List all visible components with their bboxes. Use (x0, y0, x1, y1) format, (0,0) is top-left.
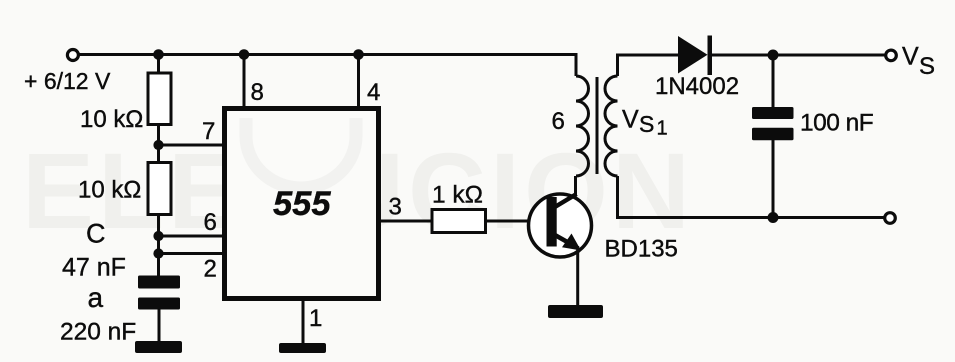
svg-text:47 nF: 47 nF (62, 254, 126, 282)
diode D1 1N4002 (678, 36, 708, 74)
svg-text:3: 3 (389, 194, 402, 221)
svg-text:a: a (88, 282, 104, 313)
transistor Q1 BD135 (529, 194, 592, 257)
ground C1 (135, 341, 182, 353)
svg-text:555: 555 (273, 185, 331, 223)
IC U1 555 timer box (225, 109, 379, 299)
secondary winding (605, 76, 618, 176)
wire pin2 (159, 252, 225, 255)
svg-text:10 kΩ: 10 kΩ (80, 106, 143, 133)
node junction pin8 (239, 49, 250, 60)
svg-text:220 nF: 220 nF (60, 319, 136, 346)
resistor R3 1k (432, 210, 486, 233)
wire pin6 (159, 235, 225, 238)
wire R3 to base (486, 220, 549, 223)
node junction pin2 (153, 248, 163, 258)
svg-text:100 nF: 100 nF (800, 110, 873, 137)
capacitor C1 plate bottom (138, 298, 180, 310)
node junction C2 bottom (768, 212, 779, 223)
wire C1 to ground (158, 309, 161, 342)
ground Q1 (548, 305, 603, 318)
watermark ghost inside box (246, 118, 356, 188)
wire rail to R1 (157, 55, 160, 75)
wire pin8 (243, 55, 246, 109)
node junction C2 top (768, 50, 779, 61)
node junction top R1 (153, 49, 164, 60)
primary winding (576, 76, 589, 176)
terminal bottom (885, 213, 896, 224)
capacitor C1 plate top (138, 276, 180, 289)
wire collector (574, 176, 577, 196)
wire R2 down (157, 213, 160, 276)
svg-text:+ 6/12 V: + 6/12 V (24, 68, 111, 94)
svg-text:V: V (622, 106, 639, 134)
ground pin1 (279, 343, 326, 353)
core (596, 77, 599, 174)
svg-text:C: C (86, 219, 106, 249)
svg-text:8: 8 (251, 79, 264, 106)
wire R1 to R2 (157, 124, 160, 164)
svg-text:BD135: BD135 (605, 236, 678, 263)
wire secondary bottom (618, 176, 885, 218)
svg-text:1 kΩ: 1 kΩ (432, 182, 483, 209)
wire pin1 (302, 299, 305, 344)
svg-text:1N4002: 1N4002 (655, 73, 739, 100)
wire pin7 (159, 144, 225, 147)
capacitor C2 plate bottom (752, 128, 794, 141)
svg-text:S: S (919, 53, 935, 80)
svg-text:6: 6 (204, 209, 217, 236)
capacitor C2 plate top (752, 107, 794, 119)
svg-text:10 kΩ: 10 kΩ (78, 177, 141, 204)
wire diode to output (710, 54, 885, 57)
wire C2 bottom (772, 140, 775, 218)
node junction pin4 (353, 49, 364, 60)
wire secondary top (618, 55, 679, 76)
wire pin3 (379, 220, 432, 223)
wire emitter (576, 246, 579, 306)
wire rail drop to primary (575, 53, 578, 76)
svg-text:6: 6 (552, 108, 565, 135)
terminal input + (67, 50, 78, 61)
terminal VS top (886, 50, 897, 61)
svg-text:4: 4 (367, 79, 380, 106)
svg-text:1: 1 (657, 118, 668, 140)
svg-text:S: S (639, 111, 654, 137)
node junction pin7 (153, 140, 163, 150)
resistor R2 10k (148, 163, 171, 215)
svg-text:7: 7 (202, 118, 215, 145)
wire C2 top (772, 55, 775, 108)
svg-text:1: 1 (309, 305, 322, 332)
svg-text:V: V (902, 43, 919, 71)
wire top rail (79, 53, 578, 56)
svg-text:2: 2 (204, 256, 217, 283)
node junction pin6 (153, 231, 163, 241)
resistor R1 10k (148, 73, 171, 125)
wire pin4 (357, 55, 360, 109)
